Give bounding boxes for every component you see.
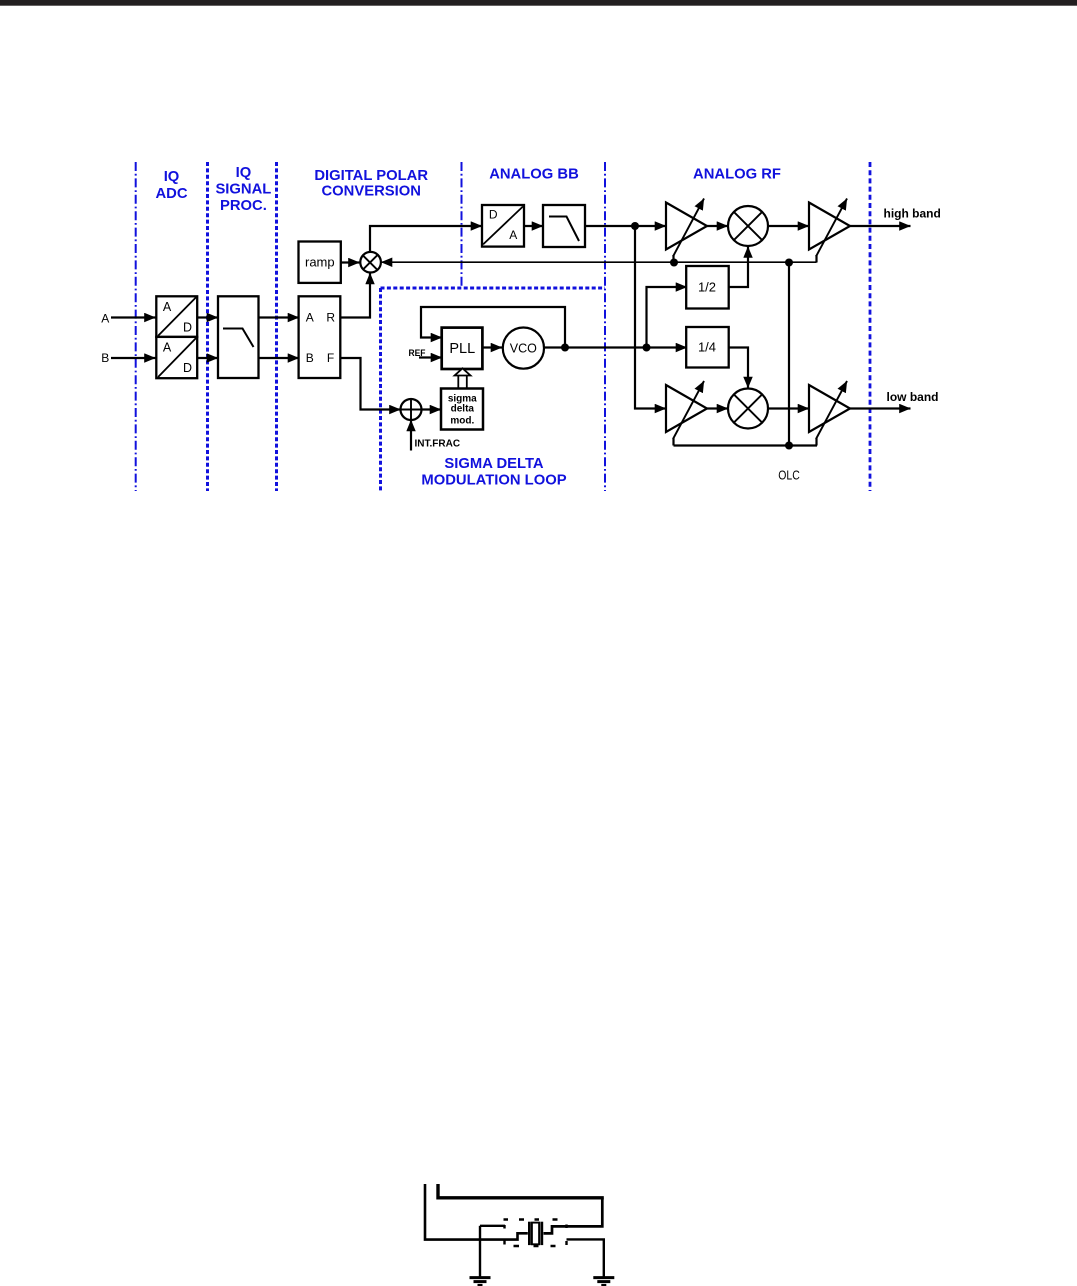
svg-text:D: D [489,208,498,222]
svg-text:VCO: VCO [510,341,537,355]
svg-text:high band: high band [884,207,941,221]
svg-text:IQ: IQ [236,165,252,181]
svg-text:SIGMA DELTA: SIGMA DELTA [444,456,543,472]
svg-text:ANALOG BB: ANALOG BB [489,167,579,183]
svg-text:ramp: ramp [305,255,335,270]
svg-text:B: B [101,351,109,365]
svg-text:mod.: mod. [450,415,474,426]
svg-text:A: A [306,310,314,324]
svg-text:SIGNAL: SIGNAL [215,182,271,198]
svg-text:OLC: OLC [778,468,800,483]
svg-text:CONVERSION: CONVERSION [321,183,420,199]
svg-text:DIGITAL POLAR: DIGITAL POLAR [314,168,428,184]
svg-text:F: F [327,351,334,365]
svg-text:B: B [306,351,314,365]
svg-text:delta: delta [451,404,475,415]
svg-text:1/4: 1/4 [698,340,716,355]
svg-text:IQ: IQ [164,169,180,185]
svg-text:MODULATION LOOP: MODULATION LOOP [421,472,566,488]
svg-text:1/2: 1/2 [698,279,716,294]
svg-text:D: D [183,361,192,375]
svg-text:A: A [163,300,172,314]
svg-text:INT.FRAC: INT.FRAC [415,439,461,450]
svg-text:A: A [163,341,172,355]
svg-text:A: A [101,312,109,326]
svg-text:REF: REF [409,348,426,359]
svg-text:low band: low band [887,390,939,404]
svg-text:R: R [326,310,335,324]
svg-text:ADC: ADC [155,186,187,202]
svg-text:A: A [509,228,517,242]
svg-text:PROC.: PROC. [220,198,267,214]
svg-text:PLL: PLL [449,341,475,357]
svg-text:D: D [183,320,192,334]
svg-text:ANALOG RF: ANALOG RF [693,167,781,183]
